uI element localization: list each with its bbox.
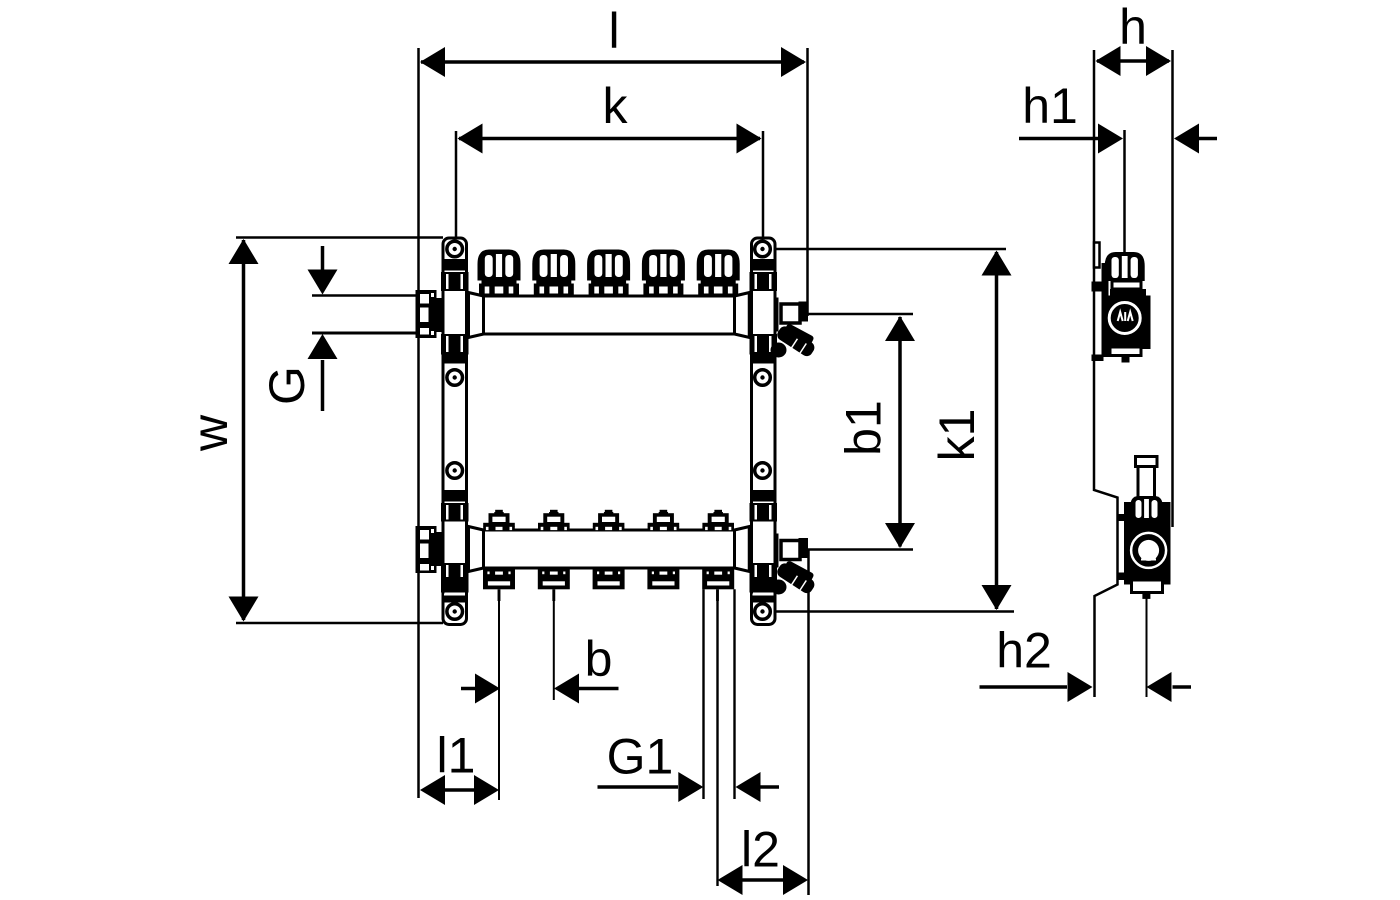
dimension k1 line xyxy=(995,252,999,609)
side view bottom valve foot xyxy=(1132,580,1163,593)
side view upper mount tab bottom xyxy=(1092,355,1104,362)
dimension b1 extension line bottom xyxy=(807,548,913,551)
dimension G extension line top xyxy=(312,294,416,297)
port 1 centreline xyxy=(498,601,500,800)
dimension h line xyxy=(1097,59,1169,63)
top manifold pipe left cone xyxy=(469,293,484,338)
lockshield cap 4 xyxy=(648,510,680,531)
svg-text:h1: h1 xyxy=(1022,78,1078,134)
side view lower mount tab bottom xyxy=(1118,573,1126,581)
dimension b1 arrow top xyxy=(885,316,915,341)
top manifold pipe body xyxy=(484,296,735,334)
outlet port 3 xyxy=(593,569,625,589)
side view top valve flange xyxy=(1110,289,1146,296)
dimension l arrow left xyxy=(420,47,445,77)
port 1 centreline stub xyxy=(498,589,501,601)
side view rail strip xyxy=(1102,263,1109,357)
outlet port 5 xyxy=(702,569,734,589)
port 2 centreline xyxy=(553,601,555,700)
lockshield cap 1 xyxy=(483,510,515,531)
dimension l1 arrow right xyxy=(474,775,499,805)
dimension k1 arrow bottom xyxy=(982,585,1012,610)
dimension l extension line right upper xyxy=(806,48,809,316)
dimension k1 extension line top xyxy=(774,248,1006,251)
outlet port 4 xyxy=(647,569,679,589)
side view bottom valve centreline xyxy=(1146,599,1148,698)
dimension w extension line bottom xyxy=(236,622,443,625)
top manifold pipe right cone xyxy=(735,293,750,338)
dimension l extension line right lower xyxy=(807,550,810,895)
svg-text:h: h xyxy=(1119,0,1147,55)
top drain valve outlet xyxy=(781,304,800,323)
side view top valve stub xyxy=(1122,356,1130,363)
bottom drain valve outlet xyxy=(781,541,800,560)
side view bottom valve tube xyxy=(1138,467,1155,498)
dimension w line xyxy=(242,240,246,620)
dimension h2 arrow right xyxy=(1173,685,1192,689)
dimension l2 arrow right xyxy=(783,865,808,895)
dimension h arrow left xyxy=(1096,46,1121,76)
top drain valve boss xyxy=(775,298,779,332)
dimension G arrow bottom xyxy=(321,360,325,411)
dimension l1 arrow left xyxy=(420,775,445,805)
dimension k arrow right xyxy=(737,124,762,154)
port 2 centreline stub xyxy=(552,589,555,601)
dimension k1 arrow top xyxy=(982,251,1012,276)
svg-text:w: w xyxy=(182,414,238,452)
left inlet nut connector bottom xyxy=(437,532,445,566)
side view front face line xyxy=(1171,50,1174,527)
dimension l arrow right xyxy=(781,47,806,77)
dimension b1 extension line top xyxy=(807,313,913,316)
svg-text:h2: h2 xyxy=(996,623,1052,679)
side view bottom valve dial xyxy=(1131,533,1166,568)
svg-text:b: b xyxy=(585,631,613,687)
side view bottom valve tube cap xyxy=(1136,457,1158,467)
outlet port 2 xyxy=(538,569,570,589)
thermostatic valve cap 5 xyxy=(697,250,740,297)
left inlet hex nut top manifold xyxy=(416,290,437,338)
bottom drain valve boss xyxy=(775,534,779,568)
thermostatic valve cap 1 xyxy=(478,250,521,297)
dimension k arrow left xyxy=(458,124,483,154)
lockshield cap 2 xyxy=(538,510,570,531)
port 5 centreline stub xyxy=(716,589,719,601)
svg-text:l: l xyxy=(608,3,619,59)
port 5 centreline xyxy=(716,601,718,886)
side view lower mount tab top xyxy=(1118,514,1125,521)
right mounting rail xyxy=(750,238,778,625)
dimension h1 opposing arrow xyxy=(1197,137,1217,141)
port 5 tube left edge xyxy=(702,589,704,799)
left inlet nut connector top xyxy=(437,298,445,332)
svg-text:l2: l2 xyxy=(741,822,780,878)
dimension G extension line bottom xyxy=(312,332,416,335)
dimension l extension line left xyxy=(417,48,420,798)
dimension k extension line left xyxy=(455,131,458,240)
bottom manifold pipe body xyxy=(484,530,735,568)
bottom manifold pipe right end cap xyxy=(748,527,752,572)
dimension h1 centre tick xyxy=(1123,130,1126,260)
dimension h arrow right xyxy=(1146,46,1171,76)
dimension k1 extension line bottom xyxy=(776,610,1014,613)
lockshield cap 3 xyxy=(593,510,625,531)
svg-text:G: G xyxy=(259,366,315,405)
dimension b arrow right (tip at port2 centre) xyxy=(578,687,619,691)
svg-text:l1: l1 xyxy=(437,728,476,784)
top drain valve spout xyxy=(771,323,817,359)
dimension k line xyxy=(459,137,760,141)
dimension l2 arrow left xyxy=(718,865,743,895)
side view upper mount tab top xyxy=(1092,282,1104,292)
side view top valve cap xyxy=(1105,252,1145,281)
dimension l1 line xyxy=(443,788,476,792)
left inlet hex nut bottom manifold xyxy=(416,526,437,573)
dimension l line xyxy=(421,60,804,64)
dimension G1 line and arrow xyxy=(598,785,679,789)
dimension G arrow top xyxy=(321,246,325,272)
dimension w arrow top xyxy=(229,239,259,264)
thermostatic valve cap 2 xyxy=(532,250,575,297)
dimension G1 opposing arrow xyxy=(760,785,779,789)
outlet port 1 xyxy=(483,569,515,589)
port 5 tube right edge xyxy=(733,589,735,799)
dimension h1 arrow xyxy=(1019,137,1100,141)
side view top valve collar xyxy=(1112,281,1141,289)
side view wall profile xyxy=(1094,50,1118,697)
svg-text:k1: k1 xyxy=(929,409,985,462)
dimension k extension line right xyxy=(762,131,765,240)
dimension b arrow left (tip at port1 centre) xyxy=(461,687,476,691)
svg-text:k: k xyxy=(603,78,629,134)
top manifold pipe left end cap xyxy=(467,293,471,338)
bottom manifold pipe left cone xyxy=(469,527,484,572)
bottom manifold pipe left end cap xyxy=(467,527,471,572)
dimension b1 arrow bottom xyxy=(885,523,915,548)
dimension h2 arrow left xyxy=(980,685,1068,689)
top manifold pipe right end cap xyxy=(748,293,752,338)
dimension l2 line xyxy=(742,878,785,882)
top drain valve flange xyxy=(799,302,809,322)
side view bottom valve body xyxy=(1124,502,1171,585)
thermostatic valve cap 3 xyxy=(587,250,630,297)
dimension w extension line top xyxy=(236,236,443,239)
side view top valve foot xyxy=(1110,347,1141,356)
dimension b1 line xyxy=(898,317,902,547)
side view top valve body xyxy=(1102,296,1151,350)
dimension w arrow bottom xyxy=(229,597,259,622)
lockshield cap 5 xyxy=(702,510,734,531)
svg-text:b1: b1 xyxy=(836,400,892,456)
bottom drain valve spout xyxy=(771,560,817,596)
left mounting rail xyxy=(441,238,469,625)
side view bottom valve cap dome xyxy=(1130,496,1163,524)
side view bottom valve stub xyxy=(1142,592,1150,599)
svg-text:G1: G1 xyxy=(607,729,674,785)
thermostatic valve cap 4 xyxy=(642,250,685,297)
side view wall tab xyxy=(1094,243,1100,268)
bottom drain valve flange xyxy=(799,538,809,558)
bottom manifold pipe right cone xyxy=(735,527,750,572)
side view top valve dial xyxy=(1109,303,1140,334)
